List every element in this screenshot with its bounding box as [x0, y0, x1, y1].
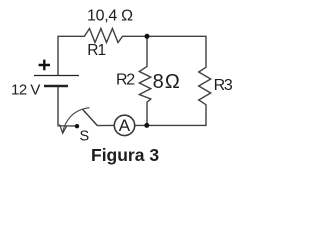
svg-text:Figura 3: Figura 3	[91, 145, 159, 165]
svg-text:R1: R1	[87, 42, 105, 59]
svg-text:10,4 Ω: 10,4 Ω	[87, 8, 133, 25]
svg-text:R3: R3	[214, 77, 233, 94]
svg-text:12 V: 12 V	[11, 82, 40, 99]
svg-text:R2: R2	[116, 72, 135, 89]
svg-text:A: A	[119, 116, 131, 135]
svg-text:8Ω: 8Ω	[153, 71, 181, 93]
svg-text:S: S	[80, 129, 90, 145]
